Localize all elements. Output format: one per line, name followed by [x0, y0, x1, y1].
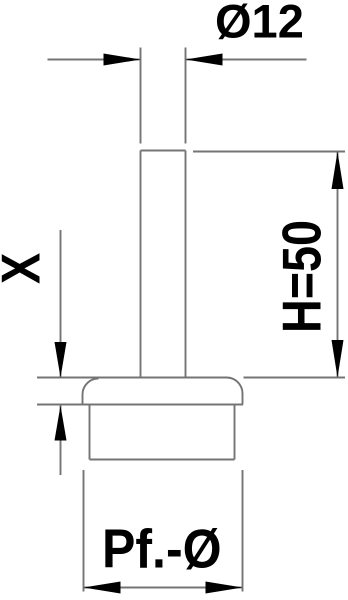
svg-text:X: X	[0, 253, 51, 284]
svg-text:Ø12: Ø12	[215, 0, 304, 48]
svg-text:H=50: H=50	[271, 220, 332, 333]
svg-text:Pf.-Ø: Pf.-Ø	[102, 518, 222, 580]
